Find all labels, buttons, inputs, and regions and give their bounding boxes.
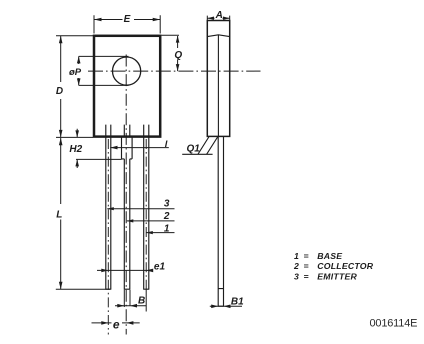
svg-text:1: 1: [294, 251, 299, 261]
dimension B: [115, 305, 146, 307]
svg-text:E: E: [124, 14, 131, 25]
Q1 leader: [182, 153, 212, 155]
svg-text:=: =: [304, 251, 309, 261]
side view body: [207, 21, 229, 137]
dimension H2: [76, 158, 122, 160]
dimension E: [94, 15, 160, 33]
dimension Q: [162, 34, 180, 36]
lead 3 centerline: [107, 139, 109, 335]
svg-text:B1: B1: [231, 296, 244, 307]
svg-text:øP: øP: [69, 67, 82, 78]
svg-text:3: 3: [294, 271, 299, 281]
svg-text:H2: H2: [69, 144, 82, 155]
dimension A: [207, 16, 229, 20]
svg-text:Q: Q: [174, 50, 182, 61]
lead 1 (right pin): [143, 137, 149, 290]
leader pin 3: [107, 208, 174, 210]
svg-text:Q1: Q1: [187, 144, 201, 155]
svg-text:e1: e1: [154, 261, 166, 272]
extension below lead 1 for B: [145, 289, 147, 311]
dimension l (leader to leads): [110, 147, 169, 149]
side view chamfer roof: [207, 35, 229, 37]
svg-text:B: B: [138, 295, 145, 306]
leader pin 2: [127, 220, 175, 222]
svg-text:BASE: BASE: [317, 251, 343, 261]
extensions below lead 2 for B: [124, 290, 130, 307]
dimension B1: [210, 305, 242, 307]
svg-text:COLLECTOR: COLLECTOR: [317, 261, 374, 271]
svg-text:1: 1: [164, 224, 170, 235]
side view inner edge: [217, 35, 219, 137]
svg-text:=: =: [304, 271, 309, 281]
lead 1 centerline: [145, 139, 147, 289]
svg-text:D: D: [56, 86, 63, 97]
mounting hole: [113, 57, 141, 85]
lead 2 (center pin, wide shoulder then narrow): [122, 137, 133, 290]
svg-text:=: =: [304, 261, 309, 271]
svg-text:0016114E: 0016114E: [370, 317, 418, 329]
svg-text:A: A: [215, 10, 223, 21]
lead 3 (left pin): [105, 137, 111, 290]
pin stubs inside body: [106, 125, 149, 136]
leader pin 1: [146, 232, 174, 234]
dimension L: [60, 138, 62, 289]
svg-text:L: L: [56, 209, 62, 220]
svg-text:2: 2: [293, 261, 299, 271]
horizontal centerline: [88, 70, 261, 72]
svg-text:e: e: [113, 317, 120, 331]
dimension oP (hole diameter): [79, 56, 129, 85]
svg-text:2: 2: [163, 211, 170, 222]
svg-text:3: 3: [164, 199, 170, 210]
side view lead: [218, 136, 224, 306]
svg-text:l: l: [165, 139, 168, 150]
vertical centerline: [125, 55, 127, 335]
dimension e: [92, 322, 140, 324]
package body front view: [94, 36, 160, 137]
dimension e1: [97, 269, 153, 271]
svg-text:EMITTER: EMITTER: [317, 271, 357, 281]
dimension D: [56, 36, 93, 138]
